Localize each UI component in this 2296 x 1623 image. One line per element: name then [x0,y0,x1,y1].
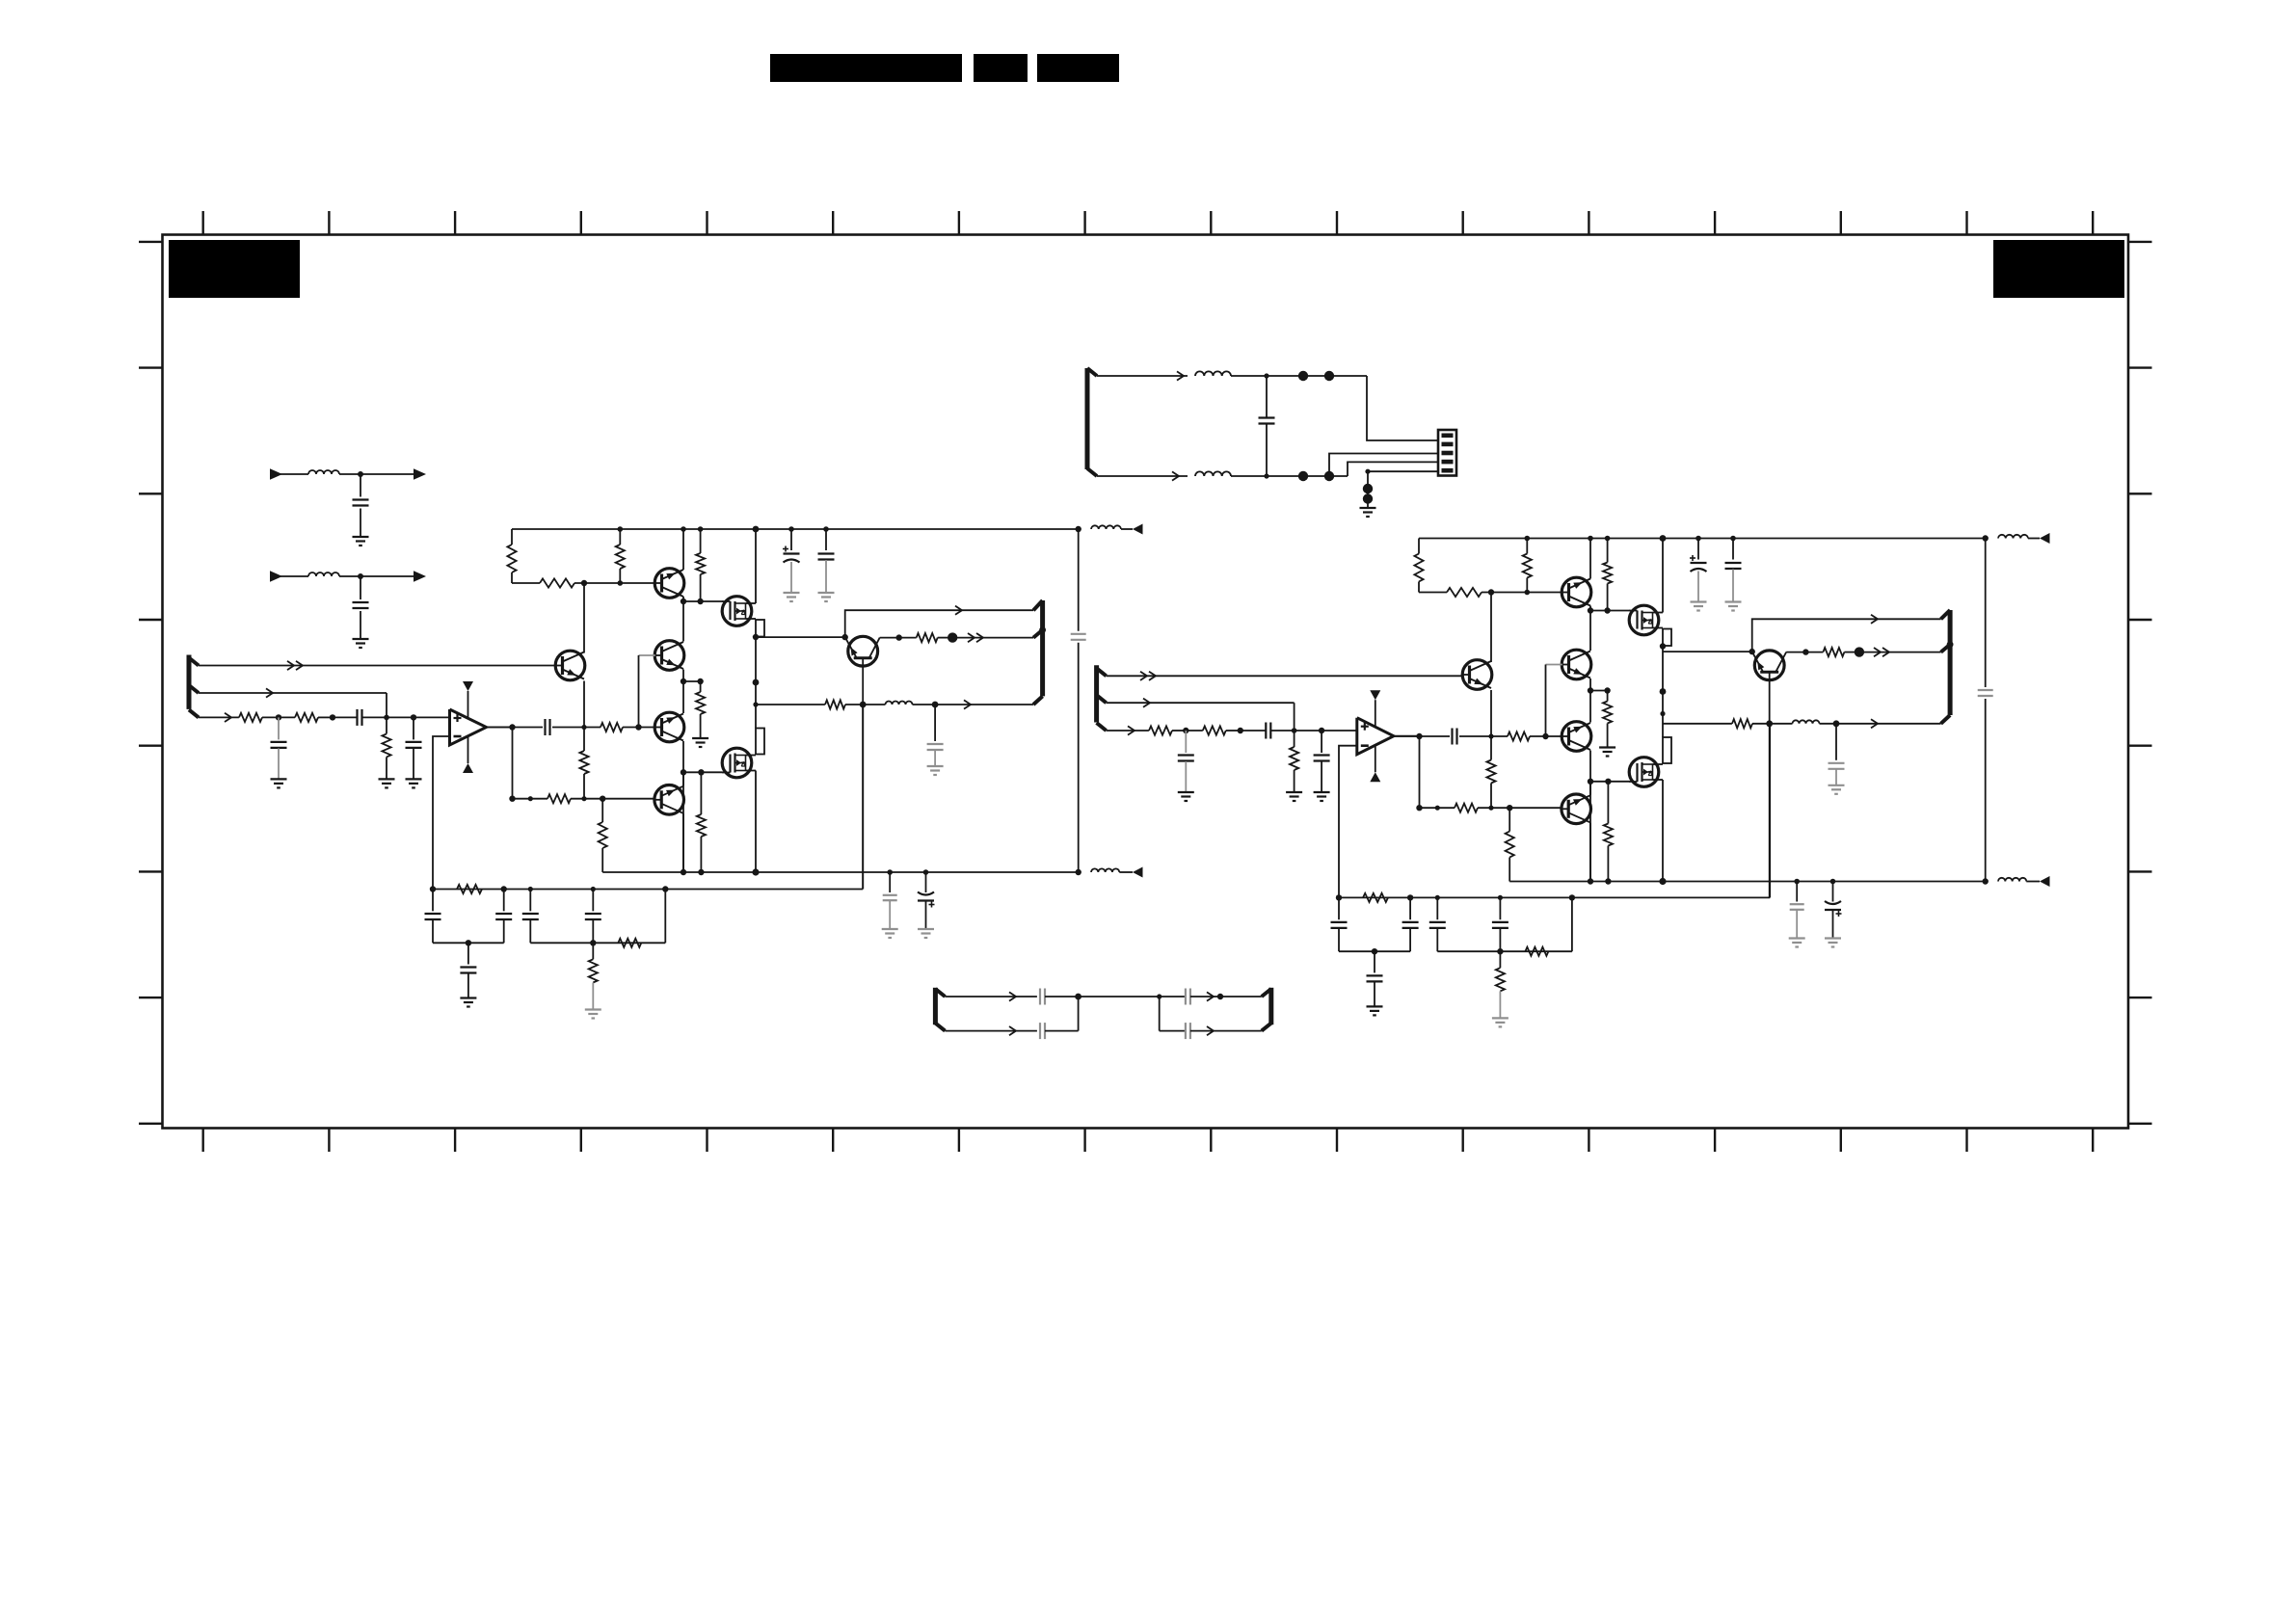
node La [384,714,416,720]
capacitor C11a [333,709,450,726]
transistor Q4a [654,712,684,742]
wire to pin 2 [1329,454,1438,477]
wire midpoint row b [1590,690,1608,692]
resistor R18b [1732,719,1770,728]
wire gate row1 a [683,600,723,602]
shunt resistor box RS1b [1663,629,1671,647]
wire to speaker mid b [1859,648,1941,656]
wire M2 drain a [746,755,757,757]
rail junction dots b [1525,535,1736,542]
node Ha [509,724,641,730]
terminal arrow out T1 [414,468,426,480]
node Mb [1336,894,1575,900]
node Lb [1292,728,1325,733]
mosfet M2a [722,748,752,778]
resistor R7a [579,728,588,799]
wire M1 source b [1653,627,1664,629]
node Gb [1660,643,1667,716]
node Ea [681,678,704,684]
wire link riser left [1078,997,1080,1031]
wire link riser right [1159,997,1161,1031]
ground stub dots [1363,471,1373,507]
resistor R9a [547,794,571,803]
transistor Q5b driver [1752,651,1787,680]
resistor R1b [1414,539,1423,593]
wire M1 drain b [1653,539,1664,613]
wire Q6 emitter a [682,813,684,872]
inductor L5a [1091,868,1133,872]
wire fb loop up a [664,890,666,944]
capacitor C20 [1040,989,1079,1005]
wire collector row b [1786,652,1805,653]
capacitor C6b [1725,539,1742,602]
ground G9b [1825,939,1841,947]
transistor Q2b [1462,660,1492,690]
wire Q5 base drop b [1769,680,1771,898]
terminal arrow in T1 [270,468,308,480]
resistor R15a [618,939,641,947]
ground G14a [585,1010,601,1019]
resistor R18a [825,700,863,708]
wire M2 drain b [1653,763,1664,765]
ground G13b [1367,1006,1383,1015]
resistor R12b [1186,726,1241,734]
capacitor C8b [1790,879,1804,939]
ground G15a [927,766,944,775]
transistor Q1b [1562,577,1591,607]
wire input 1 b [1107,672,1464,680]
wire fb bottom right a [530,942,665,944]
transistor Q3b [1562,650,1591,679]
resistor R13b [1290,731,1298,792]
node Oa [590,940,596,945]
capacitor C2 [353,474,369,537]
connector J6 bracket [1262,988,1271,1031]
resistor R13a [382,717,390,779]
wire to pin 1 [1367,376,1438,440]
node Qa big [948,632,957,642]
node Jb [1183,728,1188,733]
capacitor C22 [1040,1023,1079,1039]
resistor R6b [1604,782,1613,882]
wire op-amp output a [487,727,513,729]
inductor L5b [1998,878,2040,882]
resistor R16b [1496,951,1505,1018]
ground G10a [271,779,287,787]
capacitor C14b [1331,897,1348,951]
ground G14b [1492,1018,1508,1026]
wire to pin 4 [1365,469,1438,474]
wire Q2 collector a [583,583,585,653]
wire to speaker bottom a [935,700,1033,708]
wire fb to driver b [1572,724,1770,898]
node Ga [753,634,760,707]
resistor R5a [696,681,705,738]
wire fb row b [1339,896,1572,898]
capacitor C18a [585,890,601,944]
wire to speaker mid a [952,633,1033,642]
wire output node a [755,637,757,729]
wire emitter node a [756,634,848,640]
header redaction bar 1 [770,54,962,82]
ground G6b [1725,602,1742,611]
capacitor C17b [1429,897,1446,951]
wire to pin 3 [1348,462,1438,476]
rail junction dots a [618,526,829,533]
node T2 [358,573,363,579]
capacitor C23 [1160,1023,1262,1039]
node Ka [330,714,335,720]
node Pb [1802,649,1808,654]
node Ja [276,714,281,720]
wire Q3 emitter b [1589,678,1591,723]
wire gate row2 b [1590,781,1630,783]
wire op-amp out row b [1394,735,1562,737]
resistor R14b [1363,893,1388,902]
wire speaker top b [1752,615,1941,652]
inductor L6b [1983,535,2041,542]
node Fb [1588,779,1612,785]
mosfet M1a [722,597,752,626]
resistor R10a [599,799,607,872]
wire op-amp to bias a [512,728,514,799]
node B [1264,473,1268,478]
ground G2 [353,537,369,545]
node Da [681,599,704,604]
ground G13a [460,998,476,1007]
wire op-amp inv input b [1339,746,1357,898]
wire input 1 a [199,661,556,670]
terminal arrow out T2 [414,571,426,582]
capacitor C5b electrolytic [1690,539,1707,602]
transistor Q5a driver [845,636,880,666]
resistor R7b [1486,736,1495,808]
drawing frame border [163,235,2129,1129]
title block redaction top-right [1993,240,2124,298]
ground G11a [379,779,395,787]
wire input 3 b [1107,726,1149,734]
wire op-amp out row a [486,727,655,729]
capacitor C19b [1829,724,1845,785]
ground G12a [406,779,422,787]
node Ib [1416,805,1512,811]
wire Q1-Q3 link b [1589,611,1591,652]
wire midpoint row a [683,680,701,682]
node Ca [581,580,623,586]
wire Q3 base drop b [1545,665,1547,737]
wire speaker top a [845,606,1033,638]
node T1 [358,471,363,477]
ground G10b [1178,792,1194,801]
terminal arrow rail b [2040,533,2050,544]
node Kb [1238,728,1243,733]
ground G1 [1360,508,1376,517]
capacitor C21 [1160,989,1262,1005]
node Sa [932,702,939,708]
resistor R11a [239,713,279,722]
capacitor C12a [271,717,287,779]
capacitor C14a [425,890,441,944]
wire +V rail a [512,528,1079,530]
connector J4a speaker bracket [1033,600,1046,705]
mosfet M1b [1629,605,1659,635]
connector J4b speaker bracket [1941,610,1954,724]
resistor R8b [1508,732,1530,740]
wire fb to driver a [665,705,863,890]
resistor R17a [899,633,953,642]
wire -V bus b [1509,881,1986,883]
resistor R4b [1447,588,1482,597]
shunt resistor box RS2b [1663,737,1671,763]
shunt resistor box RS1a [756,620,764,637]
capacitor C7a [546,719,550,735]
wire zobel row b [1663,723,1732,725]
connector J1 bus bracket [1087,368,1097,476]
capacitor C16a [460,943,476,998]
ground G12b [1314,792,1330,801]
node Qb big [1855,647,1864,656]
wire gate row2 a [683,771,723,773]
resistor R2a [616,529,625,583]
wire input 3 a [199,713,239,722]
inductor L4 [308,572,414,576]
capacitor C6a [818,529,835,593]
node Hb [1416,733,1548,739]
wire zobel row a [756,704,825,705]
connector J3b input bracket [1097,665,1107,731]
inductor L3 [308,470,414,474]
wire M2 source a [746,771,757,873]
resistor R16a [589,943,598,1009]
terminal arrow in T2 [270,571,308,582]
resistor R9b [1455,804,1478,812]
resistor R17b [1805,648,1859,656]
wire Q1 collector b [1589,539,1591,579]
wire bias row b [1420,807,1562,809]
wire fb bottom left b [1339,950,1410,952]
resistor R5b [1603,691,1612,748]
wire rail cap drop a [1078,529,1080,872]
terminal arrow bus a [1133,867,1143,878]
node Pa [896,634,902,640]
capacitor C10b [1978,690,1993,696]
resistor R10b [1506,808,1514,881]
transistor Q1a [654,569,684,599]
capacitor C13b [1314,731,1330,792]
wire +V rail b [1419,538,1986,540]
wire input 2 a [199,688,387,717]
resistor R3b [1603,539,1612,611]
resistor R4a [540,578,574,587]
shunt resistor box RS2a [756,729,764,755]
node A [1264,373,1268,378]
header redaction bar 3 [1037,54,1119,82]
wire link top mid [1079,994,1162,998]
wire Q3 base b [1546,664,1562,666]
wire emitter node b [1663,649,1755,654]
wire fb bottom right b [1437,950,1572,952]
node Eb [1588,687,1611,693]
capacitor C9b electrolytic [1825,879,1842,939]
wire rail cap drop b [1985,539,1987,882]
capacitor C1 [1259,376,1275,476]
ground G15b [1829,785,1845,794]
node T [1075,994,1081,1000]
capacitor C10a [1071,634,1086,640]
ground G8b [1789,939,1805,947]
node Nb [1372,948,1377,954]
ground G7a [692,738,708,747]
wire Q3 emitter a [682,670,684,714]
wire collector row a [880,637,899,639]
capacitor C13a [406,717,422,779]
ground G11b [1286,792,1302,801]
ground G5b [1691,602,1707,611]
node Db [1588,607,1611,613]
node Ma [430,886,669,891]
wire op-amp to bias b [1419,736,1421,808]
node Ra [860,702,867,708]
wire Q2 collector b [1490,593,1492,663]
transistor Q6b [1562,794,1591,824]
resistor R15b [1525,947,1548,956]
wire -V bus a [602,871,1078,873]
inductor L2 [1195,471,1348,476]
resistor R14a [457,885,482,893]
wire supply bottom [1097,471,1188,480]
wire base row b [1419,592,1562,594]
inductor L7b [1770,720,1836,723]
resistor R1a [507,529,516,583]
capacitor C7b [1453,729,1457,745]
resistor R3a [696,529,705,601]
capacitor C11b [1241,723,1357,739]
ground G9a [918,929,934,938]
header redaction bar 2 [974,54,1028,82]
node Ia [509,796,605,802]
resistor R6a [697,772,706,872]
wire link bottom left [945,1026,1037,1035]
wire link top left [945,992,1037,1000]
connector J5 bracket [935,988,945,1031]
capacitor C8a [883,869,897,929]
node Rb [1766,720,1773,727]
inductor L6a [1076,525,1134,532]
wire bias row a [513,798,655,800]
resistor R12a [279,713,333,722]
terminal arrow bus b [2040,876,2050,887]
capacitor C16b [1367,951,1383,1006]
op-amp U1a [450,681,487,773]
transistor Q6a [654,785,684,815]
node Fa [681,769,705,775]
capacitor C19a [927,705,944,766]
wire base row a [512,582,655,584]
ground G3 [353,639,369,648]
wire Q6 collector a [682,772,684,785]
wire Q6 emitter b [1589,823,1591,882]
capacitor C17a [522,890,539,944]
wire M1 source a [746,618,757,620]
terminal arrow rail a [1133,524,1143,535]
node Na [466,940,471,945]
wire output node b [1662,647,1664,738]
wire Q2 emitter chain a [583,681,585,728]
wire Q1 emitter node b [1589,606,1591,611]
inductor L7a [863,702,935,705]
op-amp U1b [1357,690,1394,782]
wire to speaker bottom b [1836,719,1941,728]
capacitor C15b [1402,897,1419,951]
capacitor C9a electrolytic [918,869,935,929]
node Cb [1488,589,1530,595]
capacitor C5a electrolytic [783,529,800,593]
wire Q3 base a [639,654,655,656]
wire supply top [1097,371,1188,380]
ground G8a [882,929,898,938]
resistor R8a [601,723,623,732]
capacitor C12b [1178,731,1194,792]
wire Q1-Q3 link a [682,601,684,642]
transistor Q3a [654,641,684,671]
connector J3a input bracket [189,655,199,718]
resistor R2b [1523,539,1532,593]
wire M1 drain a [746,529,757,603]
capacitor C18b [1492,897,1508,951]
node Ob [1497,948,1503,954]
wire Q3 base drop a [638,655,640,728]
wire M2 source b [1653,780,1664,882]
mosfet M2b [1629,758,1659,787]
transistor Q4b [1562,722,1591,752]
title block redaction top-left [169,240,300,298]
ferrite bead dots FB2 [1298,471,1334,481]
wire op-amp output b [1394,735,1420,737]
wire input 2 b [1107,699,1295,731]
wire Q1 emitter node a [682,597,684,601]
wire Q5 base drop a [862,666,864,890]
wire Q4 emitter b [1589,751,1591,882]
capacitor C15a [495,890,512,944]
wire Q2 emitter chain b [1490,690,1492,736]
ferrite bead dots FB1 [1298,371,1334,381]
capacitor C3 [353,576,369,639]
resistor R11b [1149,726,1186,734]
frame zone tick marks left and right [139,242,2152,1124]
node Sb [1833,720,1840,727]
wire fb bottom left a [433,942,504,944]
frame zone tick marks top and bottom [203,211,2094,1152]
bus junction dots a [681,868,1081,875]
wire Q4 emitter a [682,741,684,872]
ground G6a [818,593,835,601]
wire fb row a [433,889,665,891]
inductor L1 [1195,371,1367,376]
ground G7b [1599,748,1615,757]
wire Q1 collector a [682,529,684,570]
wire gate row1 b [1590,610,1630,612]
wire Q6 collector b [1589,782,1591,795]
wire op-amp inv input a [433,736,450,890]
wire fb loop up b [1571,897,1573,951]
connector J2 header [1438,430,1456,476]
ground G5a [784,593,800,601]
bus junction dots b [1588,878,1989,885]
transistor Q2a [555,651,585,680]
